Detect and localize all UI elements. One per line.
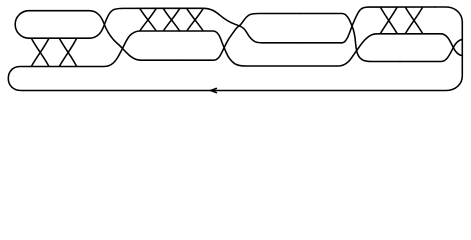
wire: pill B top edge down through crossing T4, line under pill C, up through crossing T6 into pill D top edge (180, 31, 410, 66)
wire: pill A top edge through crossing T1 down through crossing T2 into pill B bottom edge (89, 11, 180, 61)
pill A left body (top edge, left cap, bottom edge) (15, 11, 89, 39)
wire: pill D top edge down through crossing T7 to right vertical edge (410, 34, 462, 56)
wire: outer return loop (top-right corner, right edge, bottom line, left cap, loop top edge rising through crossing T2 into pill B top edge) (8, 7, 462, 91)
wire: pill C bottom edge up through crossing T5 onto section-4 top line (300, 7, 435, 43)
twist crossing X6 (first of two, section 4) (381, 7, 398, 33)
wire: pill C top edge through crossing T5 down through crossing T6 into pill D bottom edge (300, 14, 400, 62)
orientation arrowhead on bottom strand pointing left (210, 88, 216, 92)
twist crossing X1 below pill A (32, 39, 49, 67)
twist crossing X4 (second of three, section 2) (164, 9, 180, 31)
twist crossing X2 below pill A (60, 39, 77, 67)
wire: pill A bottom edge up through crossing T1 onto section-2 top line (89, 8, 160, 38)
twist crossing X3 (first of three, section 2) (140, 9, 156, 31)
wire: pill B bottom edge through crossing T4 up through crossing T3 into pill C top edge (180, 14, 300, 61)
twist crossing X5 (third of three, section 2) (187, 9, 203, 31)
wire: top line descending through crossing T3 into pill C bottom edge (160, 8, 300, 43)
twist crossing X7 (second of two, section 4) (406, 7, 423, 33)
wire: pill D bottom edge through crossing T7 up to right vertical edge (400, 39, 462, 61)
